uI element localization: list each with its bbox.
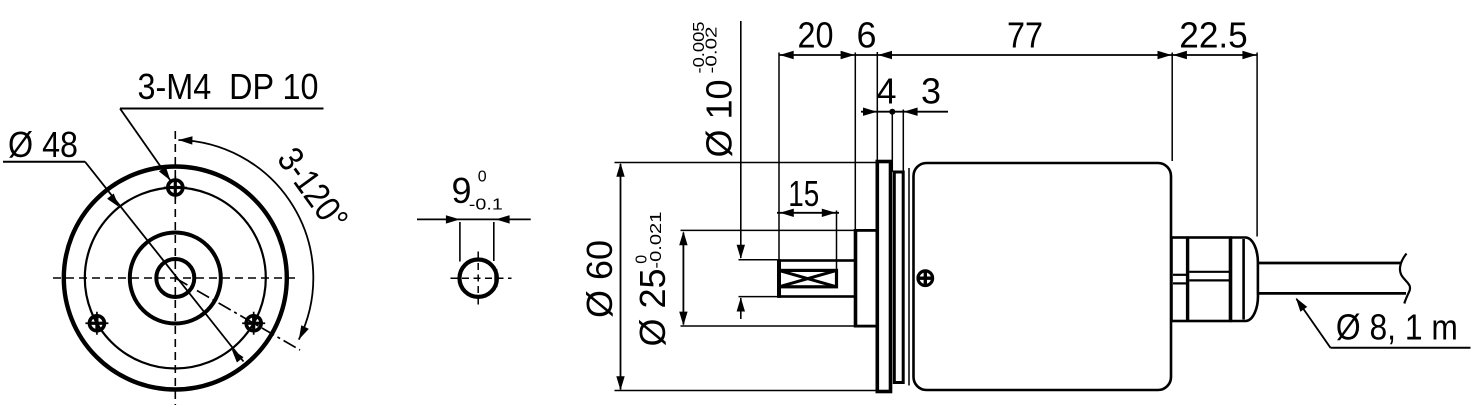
ext line plate2 right x=903.3 (902, 110, 904, 173)
dim 9 extension line right (493, 222, 495, 261)
label 4 (876, 71, 896, 112)
Ø60 dim line (620, 164, 622, 390)
svg-text:3-120°: 3-120° (270, 140, 357, 239)
Ø8 leader underline (1331, 347, 1471, 349)
label Ø 10 (699, 80, 740, 158)
dim 77 right arrow (1158, 51, 1172, 59)
screw hole top (M4) (164, 176, 187, 199)
label 3 (921, 71, 941, 112)
Ø25 dim line (682, 233, 684, 325)
front view outer circle (body Ø60) (64, 167, 287, 390)
3-120° dimension arc (178, 140, 313, 340)
Ø8 leader arrow (1296, 298, 1307, 312)
shaft key cross diagonal 1 (779, 270, 837, 286)
gland cap seam line (1242, 239, 1245, 320)
gland hex flat line 1 collar (1173, 274, 1188, 276)
Ø60 arrow down (616, 376, 624, 390)
body screw head (918, 271, 933, 286)
dim 22.5 right arrow (1242, 51, 1256, 59)
dim 20 left arrow (780, 51, 794, 59)
gland hex flat line 2 collar (1173, 282, 1188, 284)
front view boss circle Ø25 (130, 233, 221, 324)
label 20 (798, 15, 834, 56)
shaft key cross diagonal 2 (779, 270, 837, 286)
3-M4 leader line (120, 109, 170, 181)
label Ø 60 (579, 240, 620, 318)
flange plate 2 (894, 172, 903, 383)
screw hole lower-right (M4) (242, 312, 265, 335)
front view horizontal centerline (53, 277, 297, 279)
3-M4 label underline (120, 108, 324, 110)
dim 22.5 left arrow (1173, 51, 1187, 59)
shaft end circle (460, 260, 497, 297)
svg-text:3: 3 (921, 71, 941, 112)
3-M4 leader arrow (159, 167, 171, 181)
Ø25 arrow up (679, 231, 687, 245)
top dimension line y=55 (779, 54, 1257, 56)
gland hex flat line 2 (1189, 279, 1230, 281)
dim 9 extension line left (459, 222, 461, 262)
Ø48 dimension diagonal line (85, 162, 244, 362)
dim 4-3 reference dot (889, 109, 895, 115)
Ø25 ext line bottom (681, 325, 856, 327)
Ø48 arrow lower-right (232, 349, 244, 363)
svg-text:77: 77 (1007, 15, 1043, 56)
label 22.5 (1179, 15, 1248, 56)
label Ø 48 (8, 124, 78, 165)
label Ø 25 (632, 268, 673, 346)
svg-text:15: 15 (788, 173, 819, 214)
dim 4 arrow (863, 108, 877, 116)
svg-text:4: 4 (876, 71, 896, 112)
dimension 9 line (417, 218, 531, 220)
svg-text:20: 20 (798, 15, 834, 56)
label 3-M4 DP 10 (138, 66, 319, 107)
gland collar separator (1186, 238, 1189, 322)
label Ø10 tolerance -0.02 (704, 26, 721, 73)
svg-text:Ø 48: Ø 48 (8, 124, 78, 165)
Ø48 arrow upper-left (107, 194, 119, 208)
Ø8 leader line (1297, 299, 1331, 348)
label 9 tolerance 0 (478, 169, 487, 186)
svg-text:-0.02: -0.02 (704, 26, 721, 73)
front view shaft circle Ø10 (156, 259, 194, 297)
Ø10 ext line top (739, 259, 778, 261)
screw hole lower-left (M4) (85, 312, 108, 335)
ext line shaft left end x=779 (778, 53, 780, 261)
dim 3 arrow (904, 108, 918, 116)
Ø25 arrow down (679, 312, 687, 326)
ext line boss left x=855.3 (854, 53, 856, 231)
label Ø25 tolerance 0 (634, 255, 651, 264)
shaft end vertical centerline (477, 252, 479, 305)
dim 9 right arrow (496, 215, 510, 223)
Ø10 arrow up (737, 298, 745, 312)
dim 15 right arrow (822, 209, 836, 217)
label Ø10 tolerance -0.005 (691, 21, 708, 73)
svg-text:-0.1: -0.1 (469, 197, 503, 214)
Ø60 arrow up (616, 163, 624, 177)
label Ø25 tolerance -0.021 (648, 211, 665, 268)
body front seam line (908, 168, 910, 386)
cable gland body (1172, 238, 1231, 322)
dim 9 left arrow (446, 215, 460, 223)
boss outline (856, 229, 878, 328)
svg-text:Ø 60: Ø 60 (579, 240, 620, 318)
label 9 tolerance -0.1 (469, 197, 503, 214)
svg-text:0: 0 (478, 169, 487, 186)
label 3-120° (270, 140, 357, 239)
Ø10 ext line bottom (739, 296, 778, 298)
dash-dot line through lower-right hole (175, 278, 300, 350)
arc arrow top (178, 136, 192, 144)
ext line mounting face x=892.3 (891, 110, 893, 173)
cable break squiggle (1400, 254, 1410, 304)
cable bottom line (1258, 292, 1406, 295)
dim 77 left arrow (878, 51, 892, 59)
Ø25 ext line top (681, 229, 856, 231)
shaft outline (779, 259, 856, 298)
Ø48 dimension leader underline (3, 161, 85, 163)
cable top line (1258, 262, 1402, 265)
dim 15 line (777, 212, 839, 214)
Ø60 ext line top (615, 162, 878, 164)
dim 20 right arrow (841, 51, 855, 59)
encoder body outline (914, 163, 1172, 390)
front view bolt circle Ø48 (85, 188, 266, 369)
dim 15 ext line right (836, 211, 838, 289)
flange plate 1 (877, 162, 890, 392)
Ø10 dim line lower (740, 298, 742, 319)
label 9 (452, 170, 472, 211)
ext line body right x=1172.2 (1171, 53, 1173, 162)
svg-text:-0.021: -0.021 (648, 211, 665, 268)
svg-text:Ø 10: Ø 10 (699, 80, 740, 158)
ext line flange left x=877.3 (876, 52, 878, 162)
svg-text:22.5: 22.5 (1179, 15, 1248, 56)
Ø10 dim line upper (740, 21, 742, 258)
label 77 (1007, 15, 1043, 56)
label 15 (788, 173, 819, 214)
svg-text:Ø 25: Ø 25 (632, 268, 673, 346)
gland right separator (1229, 238, 1233, 322)
svg-text:6: 6 (856, 15, 876, 56)
dim 15 left arrow (780, 209, 794, 217)
arc arrow bottom (299, 325, 309, 339)
shaft end horizontal centerline (451, 277, 512, 279)
gland hex flat line 1 (1189, 271, 1230, 273)
dim 4-3 line y=111.7 (861, 111, 948, 113)
label Ø 8, 1 m (1336, 307, 1458, 348)
svg-text:Ø 8, 1 m: Ø 8, 1 m (1336, 307, 1458, 348)
front view vertical centerline (174, 131, 176, 405)
shaft key section box (779, 270, 837, 286)
svg-text:3-M4 DP 10: 3-M4 DP 10 (138, 66, 319, 107)
ext line cable gland right x=1257.1 (1256, 53, 1258, 237)
Ø60 ext line bottom (615, 390, 878, 392)
gland dome cap (1231, 238, 1258, 322)
shaft flat line (494, 269, 497, 287)
label 6 (856, 15, 876, 56)
Ø10 arrow down (737, 245, 745, 259)
